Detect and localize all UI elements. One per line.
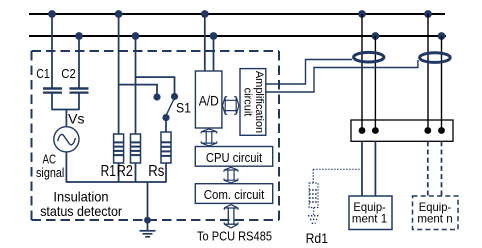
- block Com. circuit: [195, 184, 272, 204]
- resistor Rd1 dotted: [308, 169, 362, 223]
- svg-text:A/D: A/D: [199, 92, 219, 108]
- node terminal dots: [359, 127, 445, 134]
- wire R1 bottom: [118, 163, 120, 182]
- svg-text:Rd1: Rd1: [306, 230, 329, 246]
- wire CT1 to amplification: [266, 60, 352, 85]
- block equipment 1: [349, 196, 392, 230]
- current transformer CT1: [354, 52, 384, 62]
- ground: [140, 231, 156, 237]
- wire bus line negative: [29, 35, 446, 37]
- switch S1: [153, 93, 178, 121]
- svg-text:Amplification: Amplification: [253, 71, 265, 133]
- wire CT2 to amplification: [266, 60, 418, 92]
- svg-text:S1: S1: [176, 100, 191, 116]
- svg-text:ment n: ment n: [417, 212, 452, 226]
- wire feeder conductors: [362, 14, 442, 131]
- svg-text:To PCU RS485: To PCU RS485: [197, 228, 272, 243]
- svg-text:R1: R1: [101, 163, 116, 180]
- wire Vs bottom: [65, 152, 67, 182]
- node bus2 dots: [75, 32, 445, 40]
- svg-text:circuit: circuit: [241, 88, 253, 117]
- block A/D: [195, 71, 222, 128]
- block amplification circuit: [240, 69, 266, 136]
- insulation status detector dashed box: [32, 51, 280, 220]
- wire Rs bottom: [165, 163, 167, 183]
- resistor Rs: [161, 132, 171, 163]
- wire bus line positive: [29, 13, 445, 15]
- capacitor C2: [70, 89, 89, 93]
- arrow Com to PCU RS485: [224, 205, 238, 228]
- resistor R2: [131, 134, 141, 163]
- svg-text:Com. circuit: Com. circuit: [204, 187, 265, 202]
- svg-text:signal: signal: [36, 165, 64, 180]
- arrow A/D to amplification: [223, 97, 239, 115]
- arrow CPU to Com: [224, 167, 238, 183]
- arrow A/D to CPU: [201, 129, 217, 146]
- wire C2 top: [78, 36, 80, 88]
- wire S1 to Rs: [165, 120, 167, 132]
- resistor R1: [114, 134, 124, 163]
- svg-text:R2: R2: [117, 163, 133, 180]
- current transformer CT2: [420, 53, 451, 63]
- block equipment n: [413, 196, 459, 230]
- block CPU circuit: [195, 147, 272, 167]
- capacitor C1: [43, 89, 62, 93]
- node bus1 dots: [48, 10, 432, 18]
- wire equipment n feeders dashed: [428, 141, 442, 196]
- wire C1 top: [51, 14, 53, 88]
- svg-text:CPU circuit: CPU circuit: [206, 150, 263, 165]
- svg-text:ment 1: ment 1: [352, 212, 388, 226]
- svg-text:Rs: Rs: [148, 163, 164, 180]
- wire equipment 1 feeders: [362, 141, 375, 196]
- wire R1 top: [119, 14, 157, 134]
- svg-text:C1: C1: [36, 67, 50, 81]
- wire A/D inputs: [205, 14, 214, 71]
- distribution box: [351, 120, 453, 141]
- wire C2 bottom: [78, 94, 80, 110]
- node ground junction: [144, 217, 151, 224]
- wire C1 bottom: [51, 94, 53, 110]
- wire bottom rail: [66, 181, 166, 183]
- wire capacitor junction: [51, 110, 79, 127]
- source Vs: [54, 127, 79, 152]
- wire R2 bottom: [135, 163, 137, 182]
- svg-text:status detector: status detector: [40, 203, 122, 219]
- wire R2 top: [136, 36, 175, 134]
- svg-text:Vs: Vs: [68, 111, 85, 127]
- wire ground drop: [147, 182, 149, 231]
- svg-text:C2: C2: [61, 67, 76, 81]
